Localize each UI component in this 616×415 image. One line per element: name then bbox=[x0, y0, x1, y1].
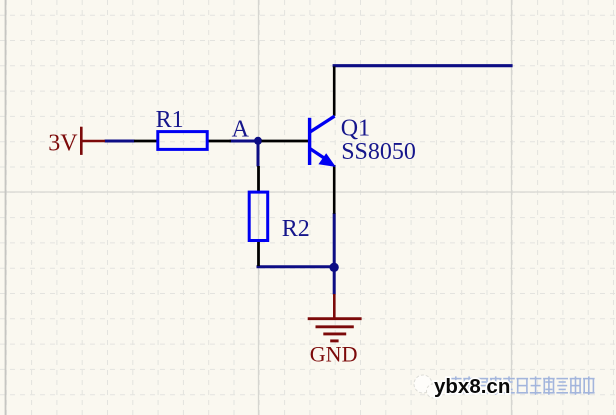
svg-text:3V: 3V bbox=[48, 131, 78, 157]
svg-text:R2: R2 bbox=[282, 216, 310, 242]
svg-text:R1: R1 bbox=[156, 107, 184, 133]
svg-text:A: A bbox=[232, 116, 250, 142]
svg-text:Q1: Q1 bbox=[341, 115, 370, 141]
svg-text:ybx8.cn: ybx8.cn bbox=[434, 375, 510, 398]
svg-text:SS8050: SS8050 bbox=[341, 139, 416, 165]
svg-text:GND: GND bbox=[310, 342, 358, 367]
